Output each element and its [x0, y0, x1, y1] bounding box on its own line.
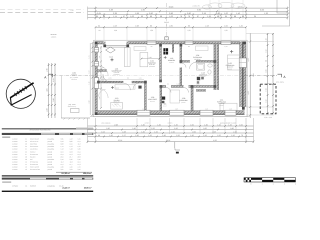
kitchen counter top [134, 47, 146, 51]
svg-text:1,50: 1,50 [217, 134, 221, 137]
table row 11 [12, 163, 81, 166]
svg-text:1,30: 1,30 [205, 109, 208, 111]
window dimension line above wall [96, 26, 247, 28]
svg-text:98: 98 [160, 15, 162, 18]
svg-text:1,26: 1,26 [203, 134, 207, 137]
table row garage [12, 184, 64, 187]
table row 9 [12, 158, 81, 161]
svg-text:1,10: 1,10 [229, 109, 232, 111]
svg-text:88: 88 [234, 15, 236, 18]
corridor wall left (horizontal) [97, 81, 123, 83]
svg-text:1,27: 1,27 [122, 134, 126, 137]
svg-text:25: 25 [96, 15, 98, 18]
svg-text:15,24: 15,24 [166, 139, 171, 142]
svg-text:KUCHNIA: KUCHNIA [148, 61, 156, 64]
svg-text:9,12 m²: 9,12 m² [150, 101, 155, 103]
north arrow shaft [10, 83, 33, 98]
table double rule [2, 174, 93, 177]
level cross near chimney [164, 56, 167, 59]
svg-text:0,90: 0,90 [149, 12, 153, 15]
interior dimension kitchen [142, 58, 160, 60]
wardrobe top bedroom [196, 46, 209, 51]
svg-text:2,10: 2,10 [171, 130, 175, 133]
small rectangle symbol lower-left [71, 109, 80, 113]
chimney block C1 [163, 48, 168, 54]
svg-text:64: 64 [98, 24, 100, 27]
bath tub [197, 64, 205, 71]
extension verticals of top chains [87, 7, 89, 20]
salon/corridor vertical wall [144, 83, 146, 111]
svg-text:1,26: 1,26 [154, 130, 158, 133]
interior double wall with shaft [214, 44, 216, 90]
right double vertical dimension chain [267, 33, 269, 114]
far-left vertical dimension chain [48, 63, 50, 118]
sofa salon upper [115, 85, 135, 90]
svg-text:2,38: 2,38 [109, 9, 113, 12]
svg-text:2,49 0,75: 2,49 0,75 [192, 5, 199, 8]
svg-text:1,40: 1,40 [157, 123, 161, 126]
svg-text:0,80: 0,80 [187, 12, 191, 15]
salon table [111, 102, 123, 109]
svg-text:2,80: 2,80 [230, 127, 234, 130]
svg-text:2,00: 2,00 [192, 130, 196, 133]
svg-text:2,86: 2,86 [169, 12, 173, 15]
wc dark fixtures [162, 97, 165, 100]
svg-text:2,30: 2,30 [106, 127, 110, 130]
svg-text:panele: panele [114, 104, 118, 106]
extension verticals bottom chains [87, 118, 89, 143]
left exterior wall [95, 42, 98, 116]
window box in right wall [239, 58, 246, 68]
table row 8 [12, 155, 81, 158]
svg-text:80: 80 [188, 24, 190, 27]
svg-text:4,27: 4,27 [247, 91, 250, 94]
bedroom vertical wall bottom [191, 88, 193, 111]
svg-text:1,45: 1,45 [175, 109, 178, 111]
svg-text:2,86: 2,86 [169, 24, 173, 27]
svg-text:95: 95 [225, 15, 227, 18]
kitchen island [140, 53, 148, 67]
svg-text:12,74: 12,74 [238, 5, 243, 8]
scale bar labels [251, 182, 296, 185]
casement arcs left wall french window [99, 89, 109, 99]
north arrow feathers [14, 86, 27, 96]
svg-text:1,21: 1,21 [99, 55, 101, 58]
annotation cloud top-right [203, 2, 246, 9]
table row 6 [12, 150, 81, 153]
section line through plan (faint) [98, 75, 240, 77]
svg-text:1,36: 1,36 [264, 12, 268, 15]
section marker A right [278, 74, 282, 77]
bath top wall horizontal [182, 60, 190, 62]
svg-text:1,52: 1,52 [52, 78, 55, 81]
svg-text:1-09: 1-09 [182, 97, 186, 100]
top exterior wall [95, 42, 104, 45]
svg-text:15,24: 15,24 [118, 139, 123, 142]
drawing title mark below [174, 142, 176, 149]
table totals row 2 [62, 187, 91, 190]
svg-text:2,98: 2,98 [114, 123, 118, 126]
interior wall kitchen/hall vertical [160, 44, 162, 81]
bath fixtures top [197, 77, 200, 80]
svg-text:2,10: 2,10 [233, 130, 237, 133]
svg-text:1,00: 1,00 [224, 12, 228, 15]
svg-text:TARAS: TARAS [71, 74, 77, 77]
svg-text:1,45: 1,45 [174, 123, 178, 126]
table row 7 [12, 153, 81, 156]
centre axis dash-dot vertical [166, 3, 168, 40]
table bottom border [2, 191, 93, 192]
dimension line top row 3 [88, 14, 288, 16]
svg-text:1,30: 1,30 [204, 123, 208, 126]
svg-text:90: 90 [141, 15, 143, 18]
door gap komora [182, 63, 186, 67]
chimney vent annotation above wall [165, 37, 168, 40]
dashed terrace rectangle right [260, 84, 276, 114]
svg-text:86: 86 [150, 15, 152, 18]
svg-text:1,98: 1,98 [135, 12, 139, 15]
area schedule table [2, 128, 93, 192]
bath sink [208, 64, 212, 67]
wiatrolap bottom stub wall [97, 70, 107, 72]
svg-text:5,12 m²: 5,12 m² [201, 76, 206, 78]
faint verticals top-right [209, 0, 211, 19]
svg-text:4,90: 4,90 [141, 9, 145, 12]
svg-text:1,64: 1,64 [101, 130, 105, 133]
svg-text:88: 88 [98, 134, 100, 137]
svg-text:1,40: 1,40 [162, 134, 166, 137]
level cross bedroom right [230, 50, 233, 53]
door arc corridor 1 [123, 83, 130, 90]
ground line left [61, 117, 90, 119]
dimension line bottom row 5 [88, 141, 254, 143]
svg-text:56: 56 [217, 15, 219, 18]
svg-text:15,24: 15,24 [169, 5, 174, 8]
table row 12 [12, 165, 81, 168]
svg-text:WIATROŁAP: WIATROŁAP [112, 69, 123, 72]
svg-text:1,30: 1,30 [142, 109, 145, 111]
table top border [2, 127, 93, 130]
svg-text:SYPIALNIA: SYPIALNIA [217, 100, 227, 103]
svg-text:±0,00: ±0,00 [109, 55, 113, 58]
small partition top (komora) [172, 44, 174, 53]
windows in top wall (white boxes) [147, 41, 156, 44]
svg-text:1,46: 1,46 [239, 24, 243, 27]
table row 3 [12, 143, 81, 146]
level cross wiatrolap [111, 58, 114, 61]
svg-text:SYPIALNIA: SYPIALNIA [193, 56, 203, 59]
wardrobe wiatrolap [124, 48, 130, 67]
svg-text:14: 14 [25, 184, 27, 187]
north arrow circle [6, 79, 35, 108]
svg-text:1-08: 1-08 [201, 72, 204, 75]
svg-text:120,41 m²: 120,41 m² [83, 172, 92, 175]
table row 5 [12, 148, 81, 151]
bed top-right room [228, 55, 242, 70]
svg-text:2,60: 2,60 [203, 127, 207, 130]
dimension line top row 2 [88, 10, 288, 12]
dimension line top row 1 [88, 7, 288, 9]
table totals row 1 [61, 172, 91, 175]
svg-text:panele: panele [195, 61, 199, 63]
svg-text:107,92 m²: 107,92 m² [61, 172, 70, 175]
dimension line top row 4 [88, 17, 288, 19]
interior vertical dimension chain near left wall [100, 46, 102, 108]
svg-text:SALON: SALON [114, 99, 121, 102]
svg-text:78: 78 [180, 15, 182, 18]
svg-text:0,60: 0,60 [216, 12, 220, 15]
door arc bedroom mid [184, 88, 189, 93]
svg-text:posadzka: posadzka [149, 66, 155, 68]
bath fixtures wall stub [196, 90, 206, 92]
svg-text:21,40 m²: 21,40 m² [62, 187, 70, 190]
svg-text:1,50: 1,50 [176, 134, 180, 137]
svg-text:2,4 m²: 2,4 m² [163, 105, 167, 107]
svg-text:panele: panele [228, 69, 232, 71]
svg-text:1,26: 1,26 [148, 134, 152, 137]
table row 4 [12, 145, 81, 148]
svg-text:1,06: 1,06 [130, 15, 134, 18]
svg-text:2,38: 2,38 [99, 96, 101, 99]
door arc corridor 2 [133, 83, 139, 89]
svg-text:1,50: 1,50 [151, 127, 155, 130]
svg-text:SYPIALNIA: SYPIALNIA [226, 64, 236, 67]
svg-text:1-03: 1-03 [170, 57, 173, 60]
svg-text:8,54: 8,54 [252, 73, 255, 76]
svg-text:1,30: 1,30 [135, 134, 139, 137]
table row 13 [12, 168, 81, 171]
svg-text:1,00: 1,00 [239, 123, 243, 126]
extension horizontals right [246, 33, 274, 35]
wc/pom vertical wall [160, 88, 162, 111]
svg-text:23,80 m²: 23,80 m² [84, 187, 92, 190]
svg-text:4,27: 4,27 [247, 58, 250, 61]
table row 1 [12, 138, 81, 141]
kitchen dark fixture [138, 86, 141, 89]
graphic scale bar [244, 178, 296, 182]
svg-text:60: 60 [242, 15, 244, 18]
svg-text:0,64: 0,64 [97, 12, 101, 15]
svg-text:57: 57 [123, 15, 125, 18]
svg-text:posadzka: posadzka [114, 74, 120, 76]
wall corner blocks [95, 42, 98, 45]
svg-text:2,40: 2,40 [132, 127, 136, 130]
svg-text:4,05: 4,05 [46, 88, 49, 91]
svg-text:GARAŻ: GARAŻ [30, 184, 36, 187]
svg-text:76: 76 [188, 15, 190, 18]
door arc wiatrolap->salon [103, 75, 111, 83]
svg-text:1,06: 1,06 [169, 15, 173, 18]
svg-text:1,14: 1,14 [113, 15, 117, 18]
svg-text:2,70: 2,70 [46, 68, 49, 71]
svg-text:3,10: 3,10 [174, 127, 178, 130]
windows in bottom wall (white boxes) [137, 110, 150, 115]
corridor wall right (horizontal) [160, 85, 166, 87]
wall junction nodes [159, 80, 162, 83]
entrance diamond symbol [106, 47, 116, 53]
svg-text:2,08: 2,08 [212, 130, 216, 133]
svg-text:2,10 m²: 2,10 m² [169, 62, 174, 64]
left building-edge dimension line [89, 43, 91, 115]
svg-text:1,60: 1,60 [190, 123, 194, 126]
svg-text:1,15: 1,15 [207, 15, 211, 18]
ground hatch ticks [63, 118, 85, 120]
svg-text:2,18: 2,18 [202, 12, 206, 15]
svg-text:2,38: 2,38 [46, 108, 49, 111]
table row 10 [12, 160, 81, 163]
svg-text:2,28: 2,28 [113, 12, 117, 15]
svg-text:panele: panele [181, 102, 185, 104]
svg-text:1,98: 1,98 [135, 24, 139, 27]
bed bottom-right room [220, 103, 237, 110]
svg-text:5,90: 5,90 [197, 9, 201, 12]
dimension line bottom row 4 [88, 136, 254, 138]
svg-text:2,06: 2,06 [260, 9, 264, 12]
section label parter [2, 137, 10, 138]
svg-text:1,30: 1,30 [190, 134, 194, 137]
svg-text:1,00: 1,00 [224, 24, 228, 27]
door arc wc [166, 88, 171, 93]
interior wall komora/bedroom vertical [180, 44, 182, 63]
plot boundary dashed line top-left [0, 11, 84, 13]
svg-text:90: 90 [150, 24, 152, 27]
door arc bath [190, 62, 197, 69]
svg-text:4,50: 4,50 [213, 139, 217, 142]
svg-text:posadzka: posadzka [48, 184, 55, 187]
svg-text:2,18: 2,18 [205, 24, 209, 27]
svg-text:1-06: 1-06 [151, 96, 155, 99]
table header band 2 [2, 178, 93, 180]
interior dimension corridor [101, 78, 144, 80]
svg-text:1-Parter: 1-Parter [12, 184, 19, 187]
dimension line bottom row 1 [88, 125, 254, 127]
window boxes in left wall [94, 48, 98, 53]
svg-text:2,28: 2,28 [113, 24, 117, 27]
svg-text:25: 25 [254, 15, 256, 18]
bottom exterior wall [95, 111, 137, 115]
dimension line bottom row 3 [88, 132, 254, 134]
north arrow fletching V [10, 95, 31, 105]
svg-text:3,12: 3,12 [52, 98, 55, 101]
dimension line bottom row 2 [88, 129, 254, 131]
svg-text:70: 70 [241, 134, 243, 137]
table header band 1 [2, 133, 93, 135]
right exterior wall (layered) [240, 42, 246, 108]
terrace edge line below bottom wall [90, 116, 250, 118]
right vertical dimension chain total [249, 33, 251, 118]
svg-text:1,20: 1,20 [231, 134, 235, 137]
table row 2 [12, 140, 81, 143]
level cross salon [111, 86, 114, 89]
svg-text:1,30: 1,30 [141, 130, 145, 133]
svg-text:2,48: 2,48 [122, 130, 126, 133]
svg-text:97: 97 [197, 15, 199, 18]
entrance recess stubs and door line [103, 42, 105, 48]
building outer face thin outline [94, 40, 247, 117]
bath wc [208, 70, 211, 74]
section label 2 [2, 182, 11, 183]
frame corner top-right [262, 0, 290, 26]
casement arcs left wall window mid [99, 66, 109, 76]
bed bottom-middle room [170, 90, 180, 103]
svg-text:panele: panele [219, 105, 223, 107]
svg-text:1,46: 1,46 [236, 12, 240, 15]
svg-text:1,36: 1,36 [109, 134, 113, 137]
